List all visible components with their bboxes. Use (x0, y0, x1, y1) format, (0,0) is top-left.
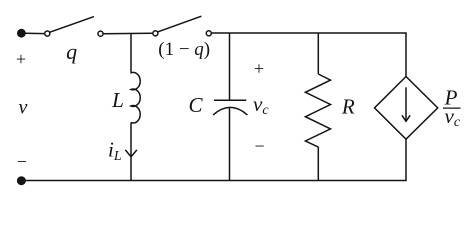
wire source branch top (405, 33, 407, 77)
wire capacitor branch bottom (229, 108, 231, 180)
wire resistor branch top (317, 33, 319, 74)
svg-text:vc: vc (253, 92, 269, 118)
svg-text:q: q (66, 39, 77, 64)
resistor R zigzag (305, 74, 330, 147)
terminal dot bottom-left (17, 176, 26, 185)
wire inductor branch top (130, 33, 132, 73)
svg-text:R: R (341, 94, 355, 118)
svg-text:iL: iL (108, 137, 122, 164)
switch q right contact (98, 31, 103, 36)
wire resistor branch bottom (317, 147, 319, 180)
terminal dot top-left (17, 29, 26, 38)
switch q blade (50, 17, 94, 33)
arrowhead iL (125, 150, 137, 157)
svg-text:L: L (111, 88, 124, 112)
svg-text:+: + (16, 49, 26, 69)
switch q left contact (45, 31, 50, 36)
svg-text:+: + (254, 58, 264, 78)
capacitor C top plate (214, 99, 246, 101)
dependent source diamond (375, 77, 438, 140)
svg-text:v: v (19, 96, 28, 118)
wire (25, 32, 44, 34)
top rail wire (212, 32, 407, 34)
switch (1-q) left contact (153, 31, 158, 36)
wire capacitor branch top (229, 33, 231, 100)
svg-text:−: − (255, 136, 265, 156)
svg-text:C: C (188, 93, 203, 117)
inductor L coil (131, 72, 140, 123)
wire inductor branch bottom (130, 122, 132, 180)
wire (103, 32, 152, 34)
switch (1-q) right contact (206, 31, 211, 36)
svg-text:−: − (17, 151, 27, 171)
switch (1-q) blade (158, 16, 201, 32)
fraction bar P/vc (443, 107, 461, 109)
capacitor C curved plate (213, 107, 247, 115)
bottom rail wire (21, 180, 406, 182)
wire source branch bottom (405, 139, 407, 180)
arrow inside source (405, 87, 407, 120)
svg-text:(1 − q): (1 − q) (158, 39, 210, 60)
